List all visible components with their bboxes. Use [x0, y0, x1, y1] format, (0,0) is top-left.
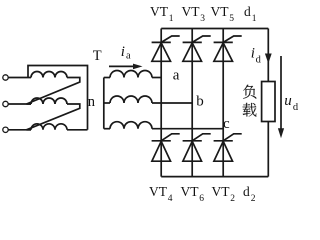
voltage ud reference arrow	[280, 56, 282, 131]
svg-text:n: n	[88, 94, 96, 110]
svg-text:1: 1	[252, 14, 257, 24]
transformer secondary winding b	[110, 96, 152, 103]
svg-text:VT: VT	[181, 184, 200, 199]
load resistor box 负载	[262, 82, 275, 122]
svg-text:a: a	[173, 67, 180, 83]
svg-text:VT: VT	[211, 4, 230, 19]
transformer primary winding 1	[31, 72, 67, 78]
svg-text:d: d	[243, 184, 250, 199]
thyristor VT6	[183, 134, 211, 161]
svg-text:c: c	[223, 116, 230, 132]
svg-text:3: 3	[200, 14, 205, 24]
current id arrow on load branch	[265, 54, 272, 64]
wire terminal U to winding 1	[8, 77, 31, 79]
wire winding c to node c / leg VT5	[152, 128, 223, 130]
svg-text:5: 5	[229, 14, 234, 24]
wire bridge leg b	[191, 29, 193, 177]
svg-text:i: i	[121, 44, 125, 60]
svg-text:d: d	[256, 54, 262, 65]
svg-text:VT: VT	[212, 184, 231, 199]
svg-text:2: 2	[230, 194, 235, 204]
svg-text:a: a	[126, 51, 131, 62]
svg-text:2: 2	[251, 194, 256, 204]
wire terminal W to winding 3	[8, 129, 31, 131]
wire bridge leg a	[160, 29, 162, 177]
svg-text:u: u	[284, 93, 292, 109]
svg-text:VT: VT	[182, 4, 201, 19]
svg-text:4: 4	[168, 194, 173, 204]
wire bridge leg c	[222, 29, 224, 177]
wire winding2 left stub	[27, 103, 32, 105]
wire winding1 right + diagonal to winding2 left	[27, 78, 80, 105]
svg-text:6: 6	[199, 194, 204, 204]
thyristor VT top leg x=192.2	[183, 36, 211, 61]
thyristor VT top leg x=161.2	[152, 36, 180, 61]
svg-text:T: T	[93, 48, 102, 64]
terminal W	[3, 127, 8, 132]
thyristor VT top leg x=223.2	[214, 36, 242, 61]
svg-text:b: b	[196, 94, 204, 110]
svg-text:d: d	[293, 102, 299, 113]
wire neutral to secondary winding b	[104, 102, 110, 104]
transformer primary winding 3	[31, 124, 67, 130]
svg-text:i: i	[251, 46, 255, 62]
wire neutral to secondary winding c	[104, 128, 110, 130]
terminal U	[3, 75, 8, 80]
wire terminal V to winding 2	[8, 103, 31, 105]
svg-text:VT: VT	[149, 184, 168, 199]
wire winding2 right + diagonal to winding3 left	[27, 104, 80, 130]
wire neutral to secondary winding a	[104, 77, 110, 79]
wire top rail d1	[161, 28, 268, 30]
label 负 load char 1	[243, 85, 256, 99]
wire winding a to node a / leg VT1	[152, 77, 161, 79]
thyristor VT4	[152, 134, 180, 161]
transformer secondary winding a	[110, 71, 152, 78]
thyristor VT2	[214, 134, 242, 161]
wire delta wrap: winding1 left up, across top, down right to winding3 right	[28, 66, 88, 130]
terminal V	[3, 101, 8, 106]
current ia arrow above winding a	[109, 65, 134, 67]
node n neutral line of secondary star	[103, 78, 105, 129]
wire bottom rail d2	[161, 176, 268, 178]
svg-text:VT: VT	[150, 4, 169, 19]
transformer secondary winding c	[110, 122, 152, 129]
svg-text:d: d	[244, 4, 251, 19]
label 载 load char 2	[243, 103, 257, 117]
wire winding b to node b / leg VT3	[152, 102, 192, 104]
svg-text:1: 1	[169, 14, 174, 24]
wire load branch right side	[267, 29, 269, 177]
wire winding3 right to delta wrap	[67, 129, 88, 131]
transformer primary winding 2	[31, 98, 67, 104]
wire winding3 left stub	[27, 129, 32, 131]
